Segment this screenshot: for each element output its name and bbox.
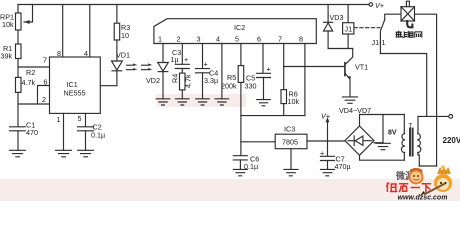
- ground (C7): [321, 169, 335, 175]
- svg-text:7805: 7805: [282, 138, 298, 147]
- wire: VD3 from rail: [327, 5, 329, 23]
- wire: IC2 pin8 to +5V node: [304, 44, 306, 116]
- svg-text:39k: 39k: [1, 52, 13, 61]
- wire: VD3 to bottom line: [327, 31, 329, 49]
- wire: bridge bottom riser to secondary bottom: [360, 155, 405, 160]
- transformer core: [410, 129, 413, 156]
- wire: base line pin7 to VT1: [284, 66, 345, 68]
- svg-text:1: 1: [158, 35, 162, 44]
- dashed linkage J1 to J1-1: [354, 27, 380, 29]
- solenoid valve stem: [406, 1, 409, 7]
- svg-text:5: 5: [78, 114, 82, 123]
- svg-text:1: 1: [57, 115, 61, 124]
- wire: bridge right vertex to ground: [374, 142, 383, 144]
- wire: IC1 pin 1 to ground: [63, 113, 65, 150]
- wire: IC3 output to bridge left vertex: [307, 140, 345, 142]
- light arrows group 1: [127, 65, 135, 70]
- mascot 1 round head: [409, 170, 424, 185]
- potentiometer RP1: [16, 13, 22, 30]
- wire: R6 to +5V node: [283, 104, 285, 116]
- wire: IC1 pin 4 from rail: [89, 5, 91, 58]
- capacitor C5 (electrolytic): [257, 73, 271, 77]
- svg-text:7: 7: [43, 56, 47, 65]
- capacitor C2: [78, 127, 94, 131]
- wire: IC1 pin 5 to C2: [85, 113, 87, 126]
- wire: C1 to ground: [17, 131, 19, 151]
- svg-text:220V: 220V: [443, 136, 460, 145]
- svg-text:10k: 10k: [2, 20, 14, 29]
- svg-text:R2: R2: [26, 68, 35, 77]
- svg-text:2: 2: [42, 95, 46, 104]
- svg-text:+: +: [267, 65, 271, 74]
- wire: valve right lead down: [415, 14, 437, 166]
- V+ arrow (mid): [327, 120, 329, 142]
- wire: RP1 to R1: [17, 30, 19, 44]
- light arrows group 2: [142, 65, 150, 70]
- svg-text:NE555: NE555: [64, 89, 86, 98]
- solenoid valve pipe hook: [407, 21, 412, 27]
- wire: IC2 pin4 to ground: [221, 44, 223, 99]
- wire: J1 to bottom line: [347, 34, 349, 49]
- wire: top V+ rail: [18, 4, 369, 6]
- capacitor C1: [10, 127, 26, 131]
- svg-text:+: +: [184, 55, 188, 64]
- svg-text:7: 7: [278, 35, 282, 44]
- svg-text:330: 330: [245, 82, 257, 91]
- svg-text:VT1: VT1: [355, 63, 368, 72]
- faint pink watermark band (middle): [156, 94, 246, 107]
- resistor R1: [16, 44, 22, 59]
- wire: C7 from node: [327, 141, 329, 156]
- wire: C2 to ground: [85, 131, 87, 151]
- ground (C5): [257, 100, 271, 106]
- wire: left chain x=18 (rail to RP1): [17, 5, 19, 14]
- svg-text:470µ: 470µ: [335, 162, 351, 171]
- red text weiku yixia: [386, 183, 431, 193]
- wire: IC2 pin6 to C5: [262, 44, 264, 74]
- wire: VD2 to ground: [162, 72, 164, 99]
- watermark mascots and text: [386, 165, 452, 201]
- transformer T secondary coil: [403, 115, 405, 161]
- svg-text:5: 5: [235, 35, 239, 44]
- resistor R4: [180, 73, 186, 90]
- ground (VT1 emitter): [343, 97, 358, 103]
- wire: R3 to VD1: [116, 40, 118, 61]
- ground (C1): [10, 150, 26, 157]
- capacitor C6: [233, 156, 247, 160]
- svg-text:+: +: [204, 60, 208, 69]
- wire: C5 to ground: [263, 78, 265, 100]
- svg-text:VD1: VD1: [116, 51, 130, 60]
- pink footer band: [0, 179, 460, 201]
- wire: C4 to ground: [202, 73, 204, 99]
- svg-text:IC3: IC3: [284, 125, 295, 134]
- svg-text:4.7k: 4.7k: [184, 74, 193, 88]
- svg-text:R4: R4: [171, 74, 180, 83]
- svg-text:VD3: VD3: [330, 13, 344, 22]
- svg-text:10: 10: [121, 31, 129, 40]
- svg-text:V+: V+: [375, 1, 384, 10]
- wire: R4 to ground: [181, 90, 183, 99]
- svg-text:T: T: [409, 124, 413, 130]
- svg-text:3: 3: [197, 35, 201, 44]
- svg-text:VD4~VD7: VD4~VD7: [339, 106, 371, 115]
- wire: primary bottom to valve return: [419, 165, 436, 167]
- ground (bridge): [376, 143, 391, 149]
- wire: VD1 to pin3 line: [116, 71, 118, 86]
- label solenoid valve (dianciFa): [396, 31, 422, 38]
- capacitor C3 (electrolytic): [175, 64, 189, 68]
- svg-text:10k: 10k: [288, 97, 300, 106]
- resistor R3: [114, 23, 120, 40]
- svg-text:1µ: 1µ: [171, 55, 179, 64]
- wire: R1 to node, node to R2: [17, 59, 19, 78]
- wire: pin7 line to IC1: [18, 66, 50, 68]
- wire: IC2 pin7 down through junction to R6: [283, 44, 285, 90]
- wire: IC3 gnd lead: [290, 149, 292, 170]
- wire: valve left lead: [385, 14, 401, 19]
- svg-text:IC2: IC2: [234, 23, 245, 32]
- svg-text:4.7k: 4.7k: [22, 78, 36, 87]
- resistor R5: [238, 66, 244, 83]
- ground (C2): [78, 150, 94, 157]
- transistor VT1: [345, 49, 352, 65]
- wire: R2 to pin2 node, down to C1: [17, 92, 19, 126]
- wire: C7 to ground: [327, 161, 329, 170]
- capacitor C4 (electrolytic): [196, 69, 210, 73]
- wire: IC2 pin1 to VD2: [162, 44, 164, 63]
- wire: bridge top riser to secondary top: [360, 115, 405, 127]
- bridge rectifier VD4~VD7 diamond: [345, 126, 374, 155]
- wire: IC2 pin5 to R5: [240, 44, 242, 66]
- diode VD3: [324, 21, 333, 23]
- ground (R4): [176, 99, 190, 105]
- wire: pin6 line: [38, 86, 50, 105]
- svg-text:4: 4: [216, 35, 220, 44]
- svg-text:J1: J1: [345, 25, 353, 34]
- svg-text:V+: V+: [321, 112, 330, 121]
- ground (IC1 pin1): [56, 150, 72, 157]
- svg-text:8V: 8V: [388, 130, 397, 137]
- wire: switch bottom line to 220V node: [380, 54, 426, 117]
- svg-text:2: 2: [177, 35, 181, 44]
- svg-text:6: 6: [257, 35, 261, 44]
- mascot 2 lion: [434, 174, 452, 192]
- svg-text:VD2: VD2: [146, 76, 160, 85]
- RP1 wiper wire with arrow: [24, 5, 33, 23]
- IC1 box: [50, 57, 101, 113]
- wire: 220V top lead with terminal: [418, 115, 449, 117]
- wire: VD3/J1 bottom line to collector: [328, 48, 353, 50]
- svg-text:www.dzsc.com: www.dzsc.com: [398, 195, 448, 202]
- wire: J1 coil from rail: [347, 5, 349, 23]
- capacitor C7 (electrolytic): [321, 156, 335, 160]
- IC3 7805 box: [275, 134, 307, 149]
- ground (VD2): [156, 99, 170, 105]
- ground (pin4): [215, 99, 229, 105]
- IC2 box with chamfered corner: [154, 19, 316, 44]
- wire: ground drop from top line: [382, 115, 384, 144]
- wire: IC2 pin3 to C4: [202, 44, 204, 69]
- svg-text:4: 4: [84, 49, 88, 58]
- wire: pin2 line to IC1: [18, 103, 50, 105]
- wire: +5V node line: [241, 115, 305, 117]
- svg-text:200k: 200k: [221, 82, 237, 91]
- photodiode VD2: [158, 63, 169, 72]
- wire: IC2 pin2 to C3: [181, 44, 183, 65]
- wire: R5 down to +5V node, IC3 lead, C6: [240, 82, 242, 155]
- diode VD1 (LED): [112, 61, 123, 70]
- terminal V+ (top right): [369, 3, 373, 7]
- svg-text:J1-1: J1-1: [372, 38, 386, 47]
- wire: IC3 input lead: [241, 141, 275, 143]
- wire: C6 to ground: [239, 160, 241, 170]
- wire: R3 top from rail: [116, 5, 118, 24]
- svg-text:470: 470: [26, 128, 38, 137]
- wire: IC1 pin 3 to VD1 branch: [100, 85, 117, 87]
- wire: IC1 pin 8 from rail: [62, 5, 64, 58]
- solenoid valve body: [401, 7, 415, 21]
- ground (IC3): [284, 169, 298, 175]
- svg-text:6: 6: [44, 78, 48, 87]
- transformer T primary coil: [418, 116, 419, 166]
- wire: C3 to R4: [181, 69, 183, 74]
- resistor R6: [281, 90, 287, 104]
- resistor R2: [16, 77, 22, 92]
- switch J1-1 arm: [380, 19, 385, 53]
- bridge inner diode: [348, 140, 372, 142]
- relay coil J1: [343, 23, 354, 34]
- svg-text:3.3µ: 3.3µ: [204, 76, 218, 85]
- svg-text:8: 8: [57, 49, 61, 58]
- svg-text:+: +: [320, 149, 324, 158]
- ground (C4): [196, 99, 210, 105]
- svg-text:0.1µ: 0.1µ: [91, 131, 105, 140]
- ground (C6): [233, 169, 247, 175]
- svg-text:8: 8: [299, 35, 303, 44]
- svg-text:0.1µ: 0.1µ: [244, 162, 258, 171]
